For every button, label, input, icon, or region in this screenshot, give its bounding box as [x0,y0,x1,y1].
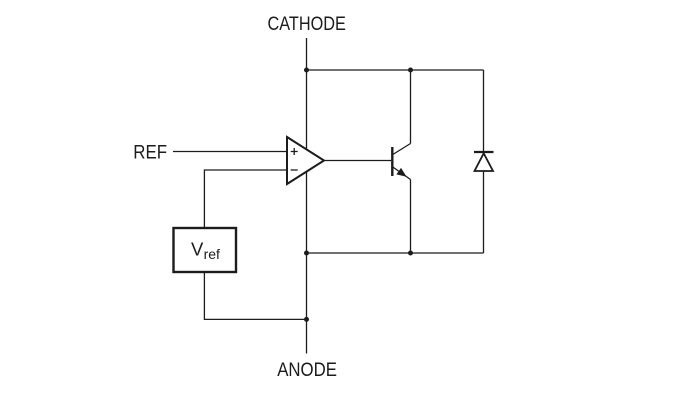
wire diode branch [483,70,485,253]
wire bottom bus [307,252,484,254]
wire inverting input [204,170,287,227]
wire top bus [307,69,484,71]
voltage reference Vref [174,228,237,272]
svg-text:REF: REF [133,143,167,164]
svg-text:CATHODE: CATHODE [268,14,346,35]
diode D1 [474,152,494,171]
junction top collector [408,68,413,73]
svg-text:ANODE: ANODE [277,360,337,381]
wire op-amp output to base [324,160,391,162]
wire REF lead [173,151,287,153]
wire Vref return [204,273,306,319]
wire emitter lead [410,180,412,254]
svg-text:V: V [191,239,204,260]
junction Vref return [304,317,309,322]
transistor Q1 [392,144,410,180]
svg-text:ref: ref [204,246,220,262]
wire cathode lead [306,38,308,70]
junction bottom emitter [408,251,413,256]
junction bottom-left [304,251,309,256]
wire collector lead [410,70,412,144]
op-amp U1 [287,137,324,184]
wire main vertical bus [306,70,308,354]
junction top-left [304,68,309,73]
